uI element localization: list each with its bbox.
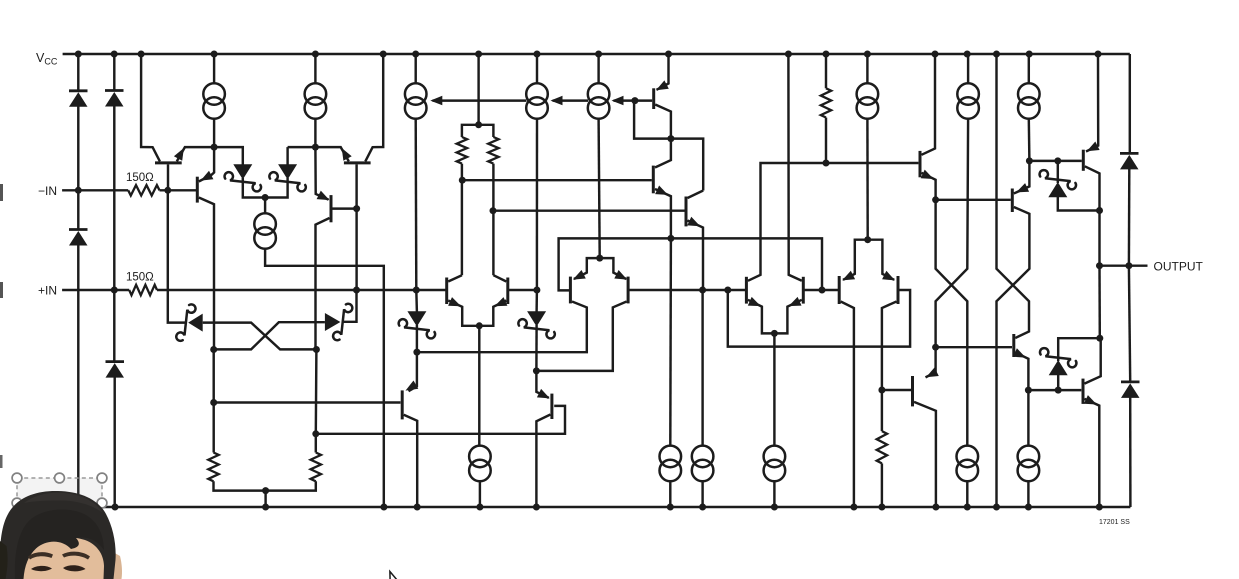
- wire node B to DS1: [214, 147, 243, 165]
- arrow Q17 emitter: [1016, 183, 1029, 192]
- wire I5 down to P2 node: [599, 119, 600, 258]
- selection box overlay: [17, 478, 102, 528]
- resistor R8: [311, 453, 321, 482]
- arrow Q4 emitter tip: [317, 191, 330, 201]
- transistor Q3 base bar: [196, 177, 199, 203]
- wire U3 base: [936, 346, 1012, 348]
- node bottom rail x703: [699, 504, 706, 511]
- wire Q4 base: [333, 207, 357, 209]
- wire Q8 collector: [536, 302, 626, 371]
- arrow Q5 emitter: [448, 297, 461, 306]
- wire I12 feed: [701, 290, 703, 446]
- wire R1 to node A: [160, 189, 198, 191]
- transistor Q8 base bar: [627, 277, 630, 304]
- wire X1 right-to-left: [936, 119, 969, 372]
- node Q16e (936,199.8): [932, 196, 939, 203]
- svg-text:OUTPUT: OUTPUT: [1154, 260, 1204, 274]
- wire Q20 emitter: [1085, 399, 1100, 507]
- resistor R7: [208, 453, 218, 482]
- wire D4 to bottom rail: [113, 377, 115, 508]
- wire R6 to rail: [881, 463, 883, 507]
- node DS8 bottom: [1055, 387, 1062, 394]
- transistor Q16 base bar: [919, 151, 922, 177]
- node G (536.4,370.9): [533, 367, 540, 374]
- node bottom rail x1028: [1025, 504, 1032, 511]
- diode D1: [69, 91, 88, 107]
- wire Q15 emitter: [688, 221, 704, 291]
- wire Q1 collector: [141, 54, 160, 161]
- current source I10: [469, 446, 491, 482]
- node wire238 x670 junction: [667, 235, 674, 242]
- wire Q12 base loop: [728, 290, 910, 347]
- arrow Q10 emitter: [789, 297, 802, 306]
- wire mirror arrow A3: [614, 99, 635, 101]
- wire R7 to rail: [214, 481, 266, 490]
- arrow Q18 emitter tip: [1087, 142, 1100, 152]
- schottky-clamp DS2: [269, 164, 305, 191]
- wire mirror arrow A1: [433, 99, 527, 101]
- wire node C to I9: [264, 198, 266, 214]
- wire D1 to -IN: [77, 106, 79, 191]
- wire mirror arrow A2: [553, 99, 588, 101]
- webcam face overlay: [100, 550, 122, 579]
- arrow Q20 emitter: [1084, 395, 1097, 404]
- wire -IN lead: [62, 189, 128, 191]
- arrow Q14 emitter: [655, 186, 668, 195]
- wire Q13 base: [635, 99, 652, 101]
- wire Q2 base down to +IN: [355, 164, 357, 290]
- node x727 junction: [724, 287, 731, 294]
- edge fragment 2: [0, 282, 3, 298]
- schottky DS5: [399, 311, 435, 338]
- node x822 junction: [819, 287, 826, 294]
- wire I7 feed: [967, 54, 969, 83]
- wire +IN node down: [342, 290, 357, 322]
- wire I11 feed: [669, 238, 672, 445]
- node U4 collector top: [1096, 335, 1103, 342]
- wire rail to R3R4: [477, 54, 479, 125]
- wire P1 tail to I10: [478, 326, 480, 446]
- wire H to Q15 collector: [671, 139, 703, 191]
- wire Q20 collector: [1085, 338, 1101, 383]
- transistor Q22 base bar: [401, 390, 404, 419]
- wire Q13 emitter: [657, 54, 669, 90]
- wire Q22 collector: [404, 415, 418, 507]
- svg-text:150Ω: 150Ω: [126, 272, 154, 284]
- wire node A down: [168, 190, 187, 322]
- wire I15 feed: [1027, 390, 1029, 446]
- wire I10 to rail: [479, 482, 481, 507]
- wire Q21 base: [882, 389, 911, 391]
- node -IN x78 junction: [75, 187, 82, 194]
- wire H loop to base: [634, 101, 671, 139]
- node R7R8 join: [262, 487, 269, 494]
- wire Q2 emitter: [315, 147, 348, 161]
- transistor Q15 base bar: [685, 197, 688, 227]
- wire D2 to +IN: [113, 105, 115, 290]
- current source I8: [1018, 83, 1040, 119]
- resistor R3: [457, 137, 467, 164]
- wire node E down: [212, 350, 214, 453]
- wire Q16 emitter: [922, 173, 936, 200]
- node Q4 base junction: [353, 205, 360, 212]
- transistor Q17 base bar: [1011, 189, 1014, 213]
- node bottom rail x854: [850, 504, 857, 511]
- node R3 tap: [459, 177, 466, 184]
- wire Q11 collector: [841, 302, 854, 508]
- wire bottom rail: [63, 506, 1131, 508]
- wire Q10 collector: [788, 54, 801, 281]
- node bottom rail x774: [771, 504, 778, 511]
- node Q13 base: [631, 97, 638, 104]
- node bottom rail x936: [932, 504, 939, 511]
- wire D5 to OUTPUT: [1128, 168, 1131, 265]
- node D (315,147): [312, 144, 319, 151]
- resistor R2 150ohm: [129, 285, 157, 295]
- arrow A3: [612, 96, 624, 106]
- mouse cursor: [390, 572, 398, 579]
- schottky DS8: [1040, 348, 1076, 375]
- arrow Q23 emitter tip: [537, 389, 550, 399]
- current source I6: [857, 83, 879, 119]
- node R6 top (881.9,390): [878, 387, 885, 394]
- schottky DS4: [325, 304, 352, 340]
- wire Q14 emitter: [655, 189, 671, 238]
- wire OUTPUT down to U4: [1098, 266, 1101, 339]
- current source I4: [526, 83, 548, 119]
- current source I5: [588, 83, 610, 119]
- wire Q8 base to P3: [628, 289, 746, 291]
- current source I9: [254, 213, 276, 249]
- wire OUTPUT: [1100, 264, 1148, 266]
- wire -IN to D3: [77, 190, 79, 228]
- diode D5: [1120, 153, 1139, 169]
- wire I8 down: [1028, 119, 1031, 160]
- node E2 (213.7,402.5): [210, 399, 217, 406]
- arrow Q6 emitter: [495, 297, 508, 306]
- arrow Q22 emitter tip: [406, 381, 419, 391]
- node U4 base left: [1025, 387, 1032, 394]
- node bottom rail x417: [414, 504, 421, 511]
- node A (-IN after R1): [164, 187, 171, 194]
- wire rail corner to D5: [1129, 54, 1131, 152]
- wire node G to Q23 emitter: [536, 371, 548, 398]
- wire D3 down to bottom rail: [77, 245, 79, 508]
- wire I11 to rail: [669, 482, 671, 507]
- wire X2 left line: [997, 54, 1030, 338]
- arrow Q15 emitter: [687, 217, 700, 226]
- wire DS1 to node C: [243, 178, 265, 198]
- transistor Q5 base bar: [445, 278, 448, 305]
- arrow Q9 emitter: [748, 297, 761, 306]
- wire +IN to DS5: [415, 290, 418, 312]
- wire Q21 emitter diag: [926, 372, 936, 377]
- wire I8 feed: [1028, 54, 1030, 83]
- current source I7: [957, 83, 979, 119]
- arrow Q12 emitter: [882, 271, 895, 281]
- transistor Q2 base bar: [344, 161, 371, 164]
- transistor Q11 base bar: [838, 276, 841, 304]
- arrow Q11 emitter: [842, 271, 855, 281]
- node F2 (315.8,433.8): [312, 430, 319, 437]
- node DS7 bottom join: [1096, 207, 1103, 214]
- transistor Q9 base bar: [745, 277, 748, 304]
- wire VCC rail: [63, 53, 1130, 55]
- current source I2: [305, 83, 327, 119]
- resistor R5: [821, 88, 831, 117]
- node P1 tail: [476, 322, 483, 329]
- schottky-clamp DS1: [225, 164, 261, 191]
- wire Q9 emitter: [748, 300, 775, 334]
- wire Q6 collector: [493, 275, 506, 281]
- wire Q4 emitter: [315, 147, 328, 200]
- resistor R6: [877, 431, 887, 463]
- wire rail to R5: [825, 54, 827, 88]
- wire I9 to bottom: [265, 249, 384, 507]
- wire I2 feed: [314, 54, 316, 83]
- wire Q16 collector: [922, 54, 936, 155]
- wire DS5 to Q22 emitter: [409, 325, 417, 391]
- wire Q15 collector diag: [688, 191, 704, 199]
- current source I1: [203, 83, 225, 119]
- wire Q7 collector: [417, 302, 587, 353]
- wire R5 to tap: [825, 118, 827, 164]
- diode D3: [69, 230, 88, 246]
- wire Q3 emitter: [199, 147, 214, 181]
- wire I15 to rail: [1027, 482, 1029, 507]
- node bottom rail x1099: [1096, 504, 1103, 511]
- wire I14 to rail: [966, 482, 968, 507]
- wire R3 bottom: [461, 164, 463, 276]
- wire I4 down: [536, 119, 539, 290]
- wire Q13 collector: [655, 105, 671, 139]
- node bottom rail x882: [878, 504, 885, 511]
- wire node F2 to Q23 base: [316, 406, 565, 434]
- node OUTPUT left: [1096, 262, 1103, 269]
- arrow Q16 emitter: [921, 170, 934, 179]
- wire H down to Q14: [655, 139, 671, 168]
- wire +IN to D4: [113, 290, 115, 361]
- diode D6: [1121, 382, 1140, 398]
- wire R join to rail: [264, 491, 266, 507]
- wire U4 base: [1028, 389, 1081, 391]
- node C (265,197.5): [262, 194, 269, 201]
- node I8-U1 (1029.4,160.9): [1026, 157, 1033, 164]
- current source I14: [957, 446, 979, 482]
- transistor Q12 base bar: [897, 276, 900, 304]
- wire Q21 collector: [914, 402, 936, 507]
- wire Q3 collector: [199, 198, 214, 350]
- current source I11: [660, 446, 682, 482]
- wire R2 to Q5 base: [157, 289, 447, 291]
- node T3e junction: [699, 287, 706, 294]
- wire R3 tap to Q14 base: [462, 179, 652, 181]
- wire to DS6: [535, 290, 538, 312]
- wire Q9 collector: [748, 163, 919, 281]
- arrow Q2 emitter: [342, 148, 352, 161]
- wire Q19 emitter: [1015, 353, 1028, 391]
- arrow Q7 emitter: [573, 270, 586, 280]
- wire I6 down: [866, 119, 869, 239]
- node +IN x114 junction: [111, 287, 118, 294]
- current source I3: [405, 83, 427, 119]
- node +IN x416 junction: [413, 287, 420, 294]
- current source I13: [764, 446, 786, 482]
- arrow Q19 emitter: [1013, 348, 1026, 357]
- wire P4 emitter right: [868, 240, 895, 280]
- wire Q23 collector: [536, 415, 550, 508]
- wire DS8 top link: [1058, 338, 1100, 361]
- current source I15: [1018, 446, 1040, 482]
- wire Q16e to Q17 base: [936, 199, 1011, 201]
- wire R8 to rail: [266, 481, 316, 490]
- transistor Q7 base bar: [569, 277, 572, 304]
- wire Q10 emitter: [774, 300, 801, 334]
- svg-text:+IN: +IN: [38, 283, 57, 297]
- wire to U1 base: [1029, 160, 1081, 162]
- arrow A2: [551, 96, 563, 106]
- node bottom rail x670: [667, 504, 674, 511]
- wire to OUTPUT node: [1098, 211, 1100, 266]
- node R4 tap: [490, 207, 497, 214]
- svg-text:VCC: VCC: [36, 51, 58, 67]
- node bottom rail x967: [964, 504, 971, 511]
- wire I1 to node B: [213, 119, 215, 147]
- node OUTPUT right: [1125, 262, 1132, 269]
- wire Q18 collector: [1085, 166, 1100, 210]
- wire I2 to node D: [314, 119, 316, 147]
- wire OUTPUT to D6: [1129, 266, 1130, 381]
- transistor Q6 base bar: [506, 278, 509, 305]
- edge fragment 3: [0, 455, 3, 468]
- node bottom rail x996: [993, 504, 1000, 511]
- wire Q5 emitter: [448, 301, 479, 326]
- svg-text:−IN: −IN: [38, 184, 57, 198]
- wire I12 to rail: [701, 482, 703, 507]
- wire VCC to D1: [77, 54, 79, 90]
- schottky DS3: [176, 304, 202, 340]
- resistor R4: [488, 137, 498, 164]
- node pair1 right base: [533, 287, 540, 294]
- wire Q18 emitter: [1086, 54, 1098, 152]
- node B (214,147): [211, 144, 218, 151]
- wire P3 tail to I13: [773, 333, 775, 445]
- node DS5 tap (417,352.1): [413, 349, 420, 356]
- resistor R1 150ohm: [128, 185, 159, 195]
- transistor Q18 base bar: [1082, 150, 1085, 171]
- wire Q1 emitter: [177, 147, 211, 161]
- wire DS7 link: [1057, 161, 1059, 183]
- wire DS8 to U4 base: [1057, 374, 1059, 390]
- node P2 emitters: [596, 255, 603, 262]
- wire X1 left-to-right: [936, 200, 968, 446]
- wire Q7 base loop: [559, 238, 822, 290]
- node bottom rail x480: [476, 504, 483, 511]
- node bottom rail x536: [533, 504, 540, 511]
- arrow Q8 emitter: [614, 270, 627, 280]
- svg-text:150Ω: 150Ω: [126, 172, 154, 184]
- transistor Q23 base bar: [550, 394, 553, 419]
- wire DS2 to node C: [265, 178, 288, 198]
- wire Q6 base: [508, 289, 537, 291]
- node +IN x356 junction: [353, 287, 360, 294]
- arrow Q13 emitter tip: [656, 80, 669, 90]
- wire I3 to +IN: [414, 119, 417, 290]
- wire I4 feed: [536, 54, 538, 83]
- node P3 tail: [771, 330, 778, 337]
- wire Q1 base to node A: [167, 164, 169, 190]
- node R5 tap: [823, 160, 830, 167]
- wire Q5 collector: [448, 275, 462, 281]
- node P4 emitters: [864, 236, 871, 243]
- wire P2 emitter left: [574, 258, 600, 279]
- transistor Q20 base bar: [1082, 379, 1085, 404]
- node F (316,349.5): [313, 346, 320, 353]
- arrow Q21 emitter tip: [926, 368, 939, 378]
- node VCC rail dots: [75, 51, 82, 58]
- arrow Q1 emitter: [174, 148, 184, 161]
- wire Q12 collector: [882, 302, 897, 432]
- wire R3 top: [462, 125, 479, 137]
- node x114 bottom rail junction: [112, 504, 119, 511]
- transistor Q13 base bar: [652, 88, 655, 109]
- wire DS3 to crossover: [203, 323, 317, 350]
- transistor Q21 base bar: [911, 376, 914, 406]
- wire I3 feed: [414, 54, 416, 83]
- node U3 base junction: [932, 344, 939, 351]
- wire P4 emitter left: [843, 240, 868, 280]
- wire node F down: [315, 350, 318, 453]
- wire +IN lead: [62, 289, 129, 291]
- wire Q4 collector: [316, 218, 330, 350]
- wire DS2 top: [286, 147, 288, 165]
- wire R4 top: [479, 125, 494, 137]
- wire Q6 emitter: [479, 301, 506, 326]
- current source I12: [692, 446, 714, 482]
- wire DS4 to crossover: [214, 322, 325, 349]
- schottky DS7: [1040, 170, 1076, 197]
- wire Q10 base to Q11: [803, 289, 839, 291]
- node bottom rail x265: [262, 504, 269, 511]
- wire DS6 down: [535, 325, 538, 371]
- transistor Q4 base bar: [330, 195, 333, 222]
- wire I6 feed: [866, 54, 868, 83]
- wire DS7 to node: [1058, 196, 1100, 210]
- wire DS2 to node D: [288, 146, 316, 148]
- wire Q17 collector: [997, 207, 1030, 507]
- node H (670.9,138.6): [667, 135, 674, 142]
- node DS7 top: [1054, 157, 1061, 164]
- node E (213.7,349.5): [210, 346, 217, 353]
- wire node E2 to Q22 base: [214, 401, 401, 403]
- node bottom rail x384: [380, 504, 387, 511]
- wire D6 to rail end: [1129, 397, 1132, 507]
- schottky DS6: [518, 311, 554, 338]
- edge fragment 1: [0, 184, 3, 201]
- diode D2: [105, 91, 124, 107]
- transistor Q10 base bar: [802, 277, 805, 304]
- transistor Q14 base bar: [652, 166, 655, 194]
- wire I5 feed: [597, 54, 599, 83]
- transistor Q19 base bar: [1012, 334, 1015, 357]
- arrow Q3 emitter tip: [201, 171, 214, 181]
- wire VCC to D2: [113, 54, 115, 90]
- wire P2 emitter right: [600, 258, 627, 279]
- wire Q17 emitter: [1014, 161, 1030, 194]
- transistor Q1 base bar: [155, 161, 182, 164]
- svg-text:17201 SS: 17201 SS: [1099, 519, 1130, 526]
- wire R4 bottom: [492, 164, 494, 276]
